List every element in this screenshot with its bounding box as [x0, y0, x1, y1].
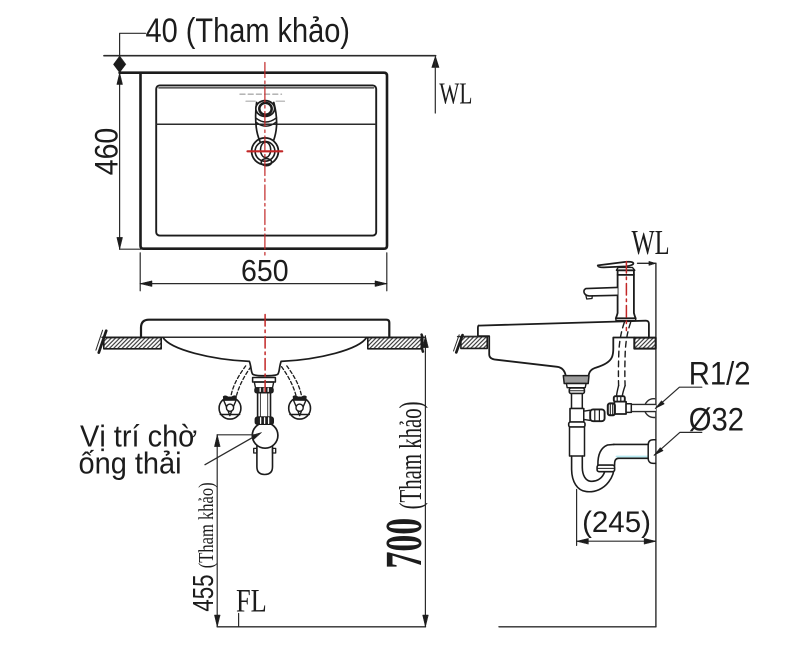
- trap nut 1 (side view): [569, 388, 584, 394]
- cyan water line in waste pipe: [617, 456, 648, 458]
- faucet base plate (side view): [616, 318, 636, 320]
- counter hatch right (side view): [634, 338, 655, 349]
- leader O32: [654, 432, 702, 455]
- svg-text:FL: FL: [236, 583, 267, 619]
- counter hatch right (front view): [368, 338, 422, 349]
- leader for 40 dimension: [120, 33, 146, 55]
- counter line stub left (side view): [458, 336, 478, 338]
- floor line left: [217, 626, 425, 628]
- svg-text:455 (Tham khảo): 455 (Tham khảo): [188, 482, 219, 611]
- trap riser nut (side view): [597, 465, 615, 472]
- 245 dimension line: [577, 540, 656, 542]
- waste horizontal pipe (side view): [614, 444, 649, 458]
- counter hatch left (front view): [104, 338, 161, 349]
- tee branch stub (side view): [590, 409, 604, 421]
- red crosshair horizontal: [248, 150, 283, 152]
- trap elbow to horizontal pipe (side view): [598, 444, 614, 465]
- faucet lever (side view): [598, 262, 634, 268]
- svg-text:460: 460: [90, 128, 125, 176]
- faucet base middle circle: [255, 141, 275, 161]
- WL level line (side view): [638, 262, 656, 264]
- faucet spout inner ellipse: [259, 103, 271, 115]
- faucet cap line (side view): [618, 274, 634, 276]
- basin bowl curve with drain sump (front view): [163, 338, 367, 376]
- supply hose dashed left (front view): [231, 366, 246, 395]
- angle valve right (front view): [289, 396, 311, 419]
- sink front profile (side view): [478, 326, 566, 376]
- svg-text:700 (Tham khảo): 700 (Tham khảo): [376, 401, 433, 568]
- trap outlet nubs (front view): [254, 448, 257, 453]
- drain flange trapezoid (front view): [254, 382, 273, 388]
- faucet handle tip ellipse: [261, 159, 271, 166]
- wall line (side view): [655, 263, 657, 627]
- 245 dimension extension line: [576, 490, 578, 546]
- valve outlet nut (side view): [626, 404, 631, 413]
- faucet shoulder arcs: [256, 118, 276, 122]
- drain flange lower trapezoid (side view): [566, 384, 586, 388]
- 650 dimension line: [140, 283, 387, 285]
- red centerline faucet (side view): [625, 262, 627, 331]
- faucet base outer circle: [252, 138, 279, 165]
- counter line (front view): [102, 336, 424, 338]
- angle valve left (front view): [219, 396, 241, 419]
- tailpiece nut 2 (front view): [255, 417, 273, 424]
- counter break mark (side view): [456, 335, 462, 352]
- wall flange of waste pipe (side view): [648, 440, 656, 464]
- tailpiece pipe (front view): [258, 393, 271, 418]
- faucet dome (side view): [616, 267, 634, 270]
- WL arrow (top view): [432, 56, 439, 67]
- extension line bottom-left of sink rect: [120, 248, 141, 250]
- trap slip nut (side view): [569, 422, 585, 427]
- svg-text:R1/2: R1/2: [689, 355, 751, 392]
- 455 dimension reference line: [217, 434, 258, 436]
- trap outlet pipe below ball (front view): [257, 440, 273, 475]
- sink rim (front view): [141, 320, 389, 337]
- trap sleeve (side view): [570, 427, 585, 456]
- leader arrow to trap: [205, 436, 256, 465]
- sink deck line (side view): [479, 321, 649, 337]
- svg-text:Ø32: Ø32: [689, 401, 744, 438]
- faucet aerator (side view): [586, 295, 593, 299]
- faucet spout outer ellipse: [256, 101, 275, 117]
- valve outlet pipe to wall (side view): [626, 404, 656, 411]
- supply hose solid ends (side view): [617, 386, 626, 397]
- tailpiece nut 1 (front view): [255, 388, 273, 393]
- basin ledge line: [156, 123, 376, 125]
- wall flange of valve (side view): [644, 399, 663, 418]
- sink inner basin rounded rectangle: [156, 85, 376, 235]
- svg-text:WL: WL: [632, 223, 670, 262]
- trap tee section (side view): [570, 409, 584, 423]
- angle valve body (side view): [614, 402, 626, 414]
- 455 dimension line: [216, 435, 218, 627]
- floor line right: [499, 626, 656, 628]
- dimension line 460: [119, 73, 121, 250]
- supply hoses dashed (side view): [618, 323, 624, 386]
- faucet base inner circle: [261, 142, 271, 157]
- sink outer rectangle (top view): [120, 73, 387, 249]
- faucet body (side view): [616, 270, 636, 318]
- tee branch collar (side view): [584, 410, 590, 420]
- 40 dimension diamond arrows: [113, 56, 125, 73]
- svg-text:40 (Tham khảo): 40 (Tham khảo): [146, 10, 350, 49]
- trap ball (front view): [252, 423, 278, 449]
- drain flange band (front view): [253, 378, 276, 383]
- wall line (top): [104, 55, 436, 57]
- faucet spout (side view): [584, 287, 618, 296]
- basin inner top second line: [159, 87, 374, 89]
- gray dashed line at spout: [240, 93, 282, 95]
- trap tailpiece pipe (side view): [572, 394, 583, 409]
- svg-text:(245): (245): [582, 506, 651, 539]
- 700 dimension line: [424, 336, 426, 627]
- counter break mark left (front view): [99, 331, 106, 353]
- red centerline (front view): [264, 315, 266, 392]
- svg-text:650: 650: [241, 254, 289, 288]
- red centerline vertical (top view): [264, 63, 266, 256]
- svg-text:WL: WL: [439, 77, 472, 111]
- counter hatch left (side view): [461, 337, 487, 349]
- U-bend inner curve (side view): [582, 456, 605, 481]
- counter break mark right (front view): [422, 335, 423, 352]
- angle valve knob (side view): [608, 403, 615, 415]
- 650 dimension extension lines: [140, 253, 387, 291]
- angle valve top nut (side view): [614, 396, 625, 402]
- leader R1/2: [655, 387, 701, 408]
- drain flange gray (side view): [563, 376, 589, 384]
- supply hose dashed right (front view): [287, 366, 302, 395]
- sink back profile under deck (side view): [589, 338, 635, 376]
- U-bend outer curve (side view): [572, 456, 615, 492]
- faucet top view: body sides: [256, 103, 260, 142]
- svg-text:ống thải: ống thải: [79, 447, 182, 481]
- FL tick: [238, 614, 240, 627]
